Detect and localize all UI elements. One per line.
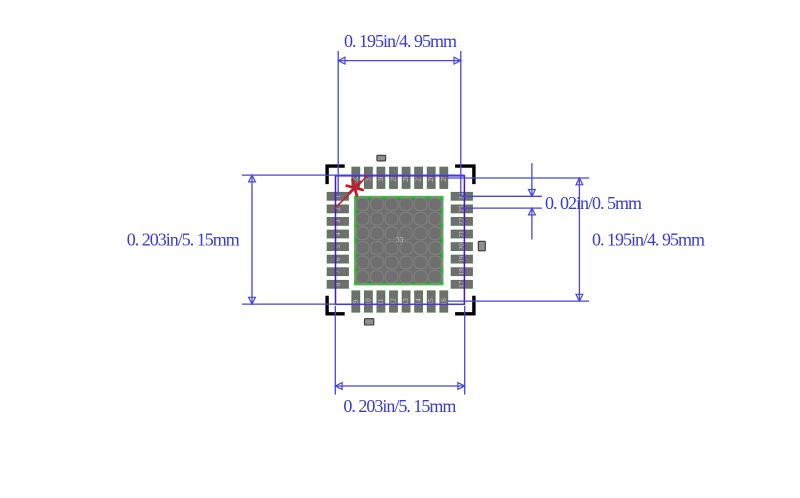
pad pin 32 (top) [352,167,360,188]
pad pin 21 (right) [451,230,472,238]
svg-text:0. 203in/5. 15mm: 0. 203in/5. 15mm [343,396,456,416]
pad pin 28 (top) [402,167,410,188]
svg-text:0. 195in/4. 95mm: 0. 195in/4. 95mm [592,230,705,250]
svg-text:0. 203in/5. 15mm: 0. 203in/5. 15mm [127,230,240,250]
pad pin 20 (right) [451,243,472,251]
svg-text:0. 195in/4. 95mm: 0. 195in/4. 95mm [344,31,457,51]
pin 1 asterisk (red) [347,180,363,196]
pad pin 9 (bottom) [352,291,360,312]
pad pin 14 (bottom) [415,291,423,312]
pad pin 19 (right) [451,255,472,263]
pad pin 29 (top) [390,167,398,188]
pad pin 18 (right) [451,268,472,276]
pin 1 indicator line (red) [335,175,368,208]
pin number labels [334,174,466,305]
pad pin 13 (bottom) [402,291,410,312]
pad pin 16 (bottom) [440,291,448,312]
pad pin 23 (right) [451,205,472,213]
thermal pad 33 fill [355,197,442,284]
pad pin 2 (left) [327,205,348,213]
bottom dimension line [335,385,464,387]
bottom dimension extension lines [334,306,336,395]
mask checker ticks [354,196,443,285]
right fiducial rect [478,241,485,251]
svg-text:9: 9 [352,300,360,304]
pad pin 11 (bottom) [377,291,385,312]
pad pin 3 (left) [327,218,348,226]
pad pin 4 (left) [327,230,348,238]
top-right corner bracket [455,166,474,184]
left dimension extension lines [242,174,465,176]
pad pin 26 (top) [427,167,435,188]
pad pin 5 (left) [327,243,348,251]
top-left corner bracket [327,166,345,184]
pad pin 25 (top) [440,167,448,188]
bottom-left corner bracket [327,296,345,314]
pad pin 31 (top) [365,167,373,188]
pad pin 10 (bottom) [365,291,373,312]
pad pin 12 (bottom) [390,291,398,312]
pad pin 27 (top) [415,167,423,188]
package outline rect (purple) [336,176,465,304]
thermal pad paste grid [356,198,441,283]
pad pin 15 (bottom) [427,291,435,312]
pad pin 17 (right) [451,280,472,288]
pad pin 22 (right) [451,218,472,226]
top fiducial rect [377,155,386,161]
left dimension line [251,175,253,304]
right dimension extension lines [448,177,589,179]
pad pin 6 (left) [327,255,348,263]
top dimension line [338,60,461,62]
pad pin 30 (top) [377,167,385,188]
pad pin 8 (left) [327,280,348,288]
bottom fiducial rect [365,319,374,325]
pitch dimension extension lines [462,195,542,197]
bottom-right corner bracket [455,296,474,314]
pad pin 1 (left) [327,192,348,200]
svg-text:33: 33 [396,236,404,244]
pad pin 24 (right) [451,192,472,200]
pitch dimension lines [531,163,533,196]
svg-text:0. 02in/0. 5mm: 0. 02in/0. 5mm [545,193,642,213]
right dimension line [578,178,580,301]
top dimension extension lines [337,51,339,196]
solder mask outline (green) [355,197,442,284]
pad pin 7 (left) [327,268,348,276]
